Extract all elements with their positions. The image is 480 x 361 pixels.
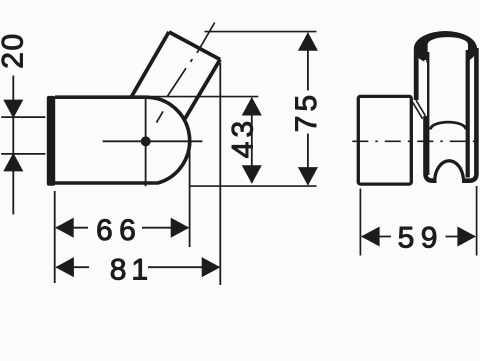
vertical centerline (145, 99, 147, 187)
svg-text:75: 75 (290, 91, 323, 132)
dimension 81 line (56, 266, 219, 268)
svg-text:59: 59 (398, 221, 444, 254)
wall plate bar (47, 96, 55, 186)
dimension 43 arrows (243, 98, 261, 115)
tube cap rim (filled ellipse ring) (414, 31, 477, 66)
dimension 81 arrows (56, 258, 73, 276)
dimension 20 extension lines (1, 117, 45, 154)
svg-text:43: 43 (226, 117, 259, 158)
tube inner-left wall (427, 52, 429, 175)
dimension 20 arrows (4, 100, 22, 117)
cylinder left edge (131, 32, 169, 97)
body outline (55, 97, 190, 183)
cylinder axis centerline dash-dot (157, 23, 215, 123)
left extension line (66/81) (54, 191, 56, 283)
rim split slit (424, 60, 426, 73)
tube inner-right wall (466, 50, 470, 178)
tube outer-left wall lower (426, 116, 437, 181)
dimension 75 bottom extension line (190, 185, 317, 187)
dimension 59 arrows (362, 227, 379, 245)
tube bore (white inverted U) (428, 37, 468, 80)
svg-text:66: 66 (96, 214, 142, 247)
dimension 20 line (12, 76, 14, 215)
dimension 75 line (307, 33, 309, 184)
right view centerline dash-dot (352, 140, 480, 142)
dimension 59 right extension line (476, 186, 478, 256)
tube outer-left wall upper (414, 50, 419, 100)
saddle near arch (435, 161, 464, 179)
cylinder right edge (184, 60, 220, 121)
dimension 66 arrows (56, 219, 73, 237)
dimension 59 line (362, 236, 475, 238)
neck taper lines (413, 100, 426, 119)
svg-text:81: 81 (110, 253, 153, 286)
cylinder cap edge (169, 32, 220, 60)
dimension 43 line (251, 98, 253, 183)
dimension 66 line (56, 227, 188, 229)
dimension 43 top extension line (152, 96, 258, 98)
dimension 66 right extension line (189, 144, 191, 248)
tube outer-right wall and bottom stub (462, 48, 476, 181)
saddle far arc (430, 122, 466, 129)
wall plate (358, 96, 411, 184)
horizontal centerline (103, 140, 203, 142)
svg-text:20: 20 (0, 32, 29, 68)
center dot (141, 136, 151, 146)
dimension 75 arrows (299, 33, 317, 50)
dimension 59 left extension line (359, 189, 361, 256)
dimension 81 right extension line (219, 63, 221, 285)
dimension 75 top extension line (205, 31, 317, 33)
